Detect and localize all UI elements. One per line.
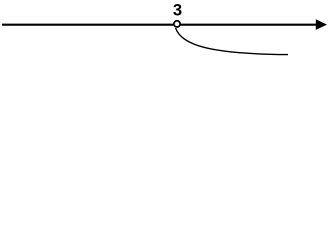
wire number line (2, 24, 317, 26)
curve branch (176, 28, 288, 55)
arrowhead right (316, 19, 327, 30)
node open circle at 3 (174, 21, 180, 27)
svg-text:3: 3 (173, 0, 182, 19)
